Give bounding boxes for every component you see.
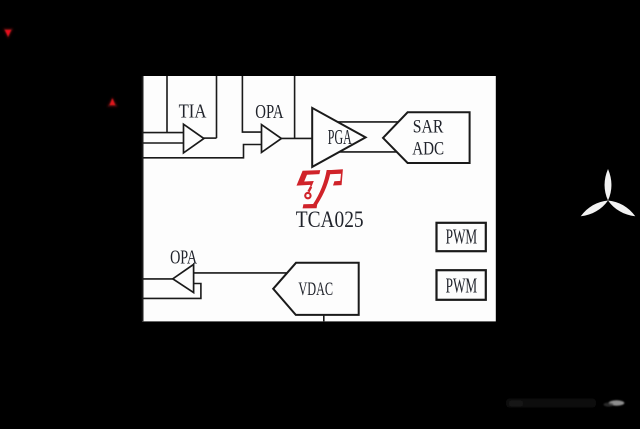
wire: OPA box right edge	[294, 76, 296, 138]
op-amp OPA triangle (top)	[262, 125, 282, 153]
wire: lower OPA output to left edge	[142, 278, 174, 280]
svg-text:VDAC: VDAC	[298, 279, 333, 300]
svg-text:OPA: OPA	[255, 101, 283, 123]
op-amp OPA triangle (bottom-left)	[173, 264, 194, 292]
op-amp TIA triangle	[184, 124, 204, 153]
red marker triangle down (top-left)	[3, 28, 14, 39]
svg-text:PGA: PGA	[328, 125, 352, 149]
icon propeller (right side)	[579, 169, 637, 219]
wire: VDAC to lower OPA input	[194, 272, 288, 274]
logo TinyChip (red emblem)	[297, 169, 343, 208]
wire: VDAC bottom stub	[323, 315, 325, 321]
wire: OPA output to PGA	[281, 137, 312, 139]
wire: TIA output to box edge	[204, 137, 217, 139]
svg-text:PWM: PWM	[446, 224, 478, 248]
svg-text:TIA: TIA	[179, 101, 207, 123]
amplifier PGA triangle	[312, 108, 365, 167]
wire: panel left edge	[142, 76, 144, 321]
wire: TIA box left edge	[166, 76, 168, 133]
wire: channel bottom PGA to SAR	[337, 151, 397, 153]
block PWM 2	[437, 270, 486, 300]
svg-text:PWM: PWM	[446, 273, 478, 297]
wire: TIA input 2	[142, 142, 184, 144]
red marker triangle up (left)	[107, 97, 118, 107]
svg-text:ADC: ADC	[412, 138, 444, 159]
block VDAC pentagon	[273, 263, 359, 315]
watermark (bottom-right, faint)	[506, 399, 624, 408]
svg-text:SAR: SAR	[413, 117, 444, 138]
wire: lower OPA feedback loop	[142, 284, 201, 299]
svg-text:TCA025: TCA025	[296, 206, 364, 232]
wire: OPA box left edge and upper input	[242, 76, 261, 132]
block PWM 1	[437, 223, 486, 251]
wire: long bus to OPA lower input	[142, 145, 262, 158]
wire: TIA input 1	[142, 132, 184, 134]
panel	[142, 76, 496, 321]
svg-text:OPA: OPA	[170, 247, 197, 269]
block SAR ADC pentagon	[383, 112, 470, 163]
wire: channel top PGA to SAR	[338, 121, 398, 123]
wire: TIA box right edge	[216, 76, 218, 138]
